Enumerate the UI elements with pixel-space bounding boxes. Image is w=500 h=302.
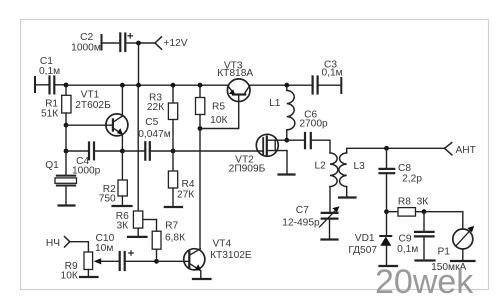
ground R6: [128, 236, 147, 238]
transistor VT1: [106, 114, 128, 136]
node R5 top junction: [198, 83, 203, 88]
svg-text:2Т602Б: 2Т602Б: [75, 100, 111, 111]
svg-text:L1: L1: [269, 98, 281, 109]
wire NCh to R9: [70, 242, 89, 252]
node C8 top junction: [384, 146, 389, 151]
node R3 top junction: [171, 83, 176, 88]
svg-text:1000p: 1000p: [72, 166, 101, 177]
resistor R5: [196, 85, 205, 128]
svg-text:L3: L3: [354, 161, 366, 172]
ground R2: [113, 205, 132, 207]
svg-text:C5: C5: [145, 117, 158, 128]
svg-text:VT4: VT4: [212, 239, 231, 250]
wire VT1 collector: [121, 85, 123, 116]
svg-text:АНТ: АНТ: [456, 145, 476, 156]
transistor VT2: [256, 134, 287, 156]
resistor R7: [152, 220, 161, 262]
svg-text:12-495p: 12-495p: [282, 218, 320, 229]
svg-text:ГД507: ГД507: [348, 245, 377, 256]
node L1 top junction: [284, 83, 289, 88]
inductor L1: [287, 85, 295, 140]
capacitor C2: [102, 34, 139, 52]
variable capacitor C7: [320, 206, 340, 239]
node R1 bottom / VT1 base junction: [64, 123, 69, 128]
ground VT2 source: [279, 173, 295, 175]
svg-text:R7: R7: [165, 220, 178, 231]
capacitor C3: [313, 77, 342, 94]
svg-text:VT1: VT1: [81, 89, 100, 100]
+12V terminal: [155, 37, 162, 49]
node +12V junction: [136, 41, 141, 46]
wire VT2 source to ground: [286, 151, 288, 175]
crystal Q1: [55, 151, 77, 206]
ground VT4: [193, 278, 211, 280]
wire L3 to antenna: [347, 147, 445, 149]
potentiometer R9: [84, 252, 120, 277]
node C1/R1 junction: [64, 83, 69, 88]
capacitor C8: [380, 148, 395, 211]
svg-text:0,047м: 0,047м: [138, 129, 171, 140]
svg-text:3К: 3К: [417, 196, 429, 207]
capacitor C6: [287, 133, 330, 153]
wire R5 node to VT3 base: [200, 95, 239, 129]
ground C9: [416, 259, 435, 261]
wire R5 node down to VT4 collector: [199, 129, 201, 250]
svg-text:2700p: 2700p: [299, 119, 328, 130]
svg-text:КТ3102Е: КТ3102Е: [210, 250, 252, 261]
capacitor C5: [122, 142, 173, 160]
ground C7: [322, 238, 338, 240]
node R5 bottom junction: [198, 126, 203, 131]
wire rail VT3 collector to C3: [250, 84, 313, 86]
svg-text:27К: 27К: [177, 190, 194, 201]
svg-text:10К: 10К: [61, 271, 78, 282]
resistor R3: [168, 85, 177, 151]
svg-text:КТ818А: КТ818А: [217, 68, 253, 79]
svg-text:22К: 22К: [147, 102, 164, 113]
node R3 bottom / R4 top junction: [171, 149, 176, 154]
svg-text:2,2p: 2,2p: [402, 173, 422, 184]
svg-text:3К: 3К: [116, 220, 128, 231]
svg-text:0,1м: 0,1м: [39, 66, 60, 77]
svg-text:VD1: VD1: [355, 233, 375, 244]
capacitor C4: [66, 143, 122, 160]
node R8 right / C9 junction: [422, 209, 427, 214]
wire C2 to +12V terminal: [139, 42, 156, 44]
node VT2 drain / L1 / C6 junction: [284, 138, 289, 143]
node C10 / R7 / VT4 base junction: [154, 259, 159, 264]
diode VD1: [380, 212, 391, 266]
terminal ANT: [445, 143, 452, 155]
node VT1 collector junction: [120, 83, 125, 88]
node C2 rail junction: [136, 83, 141, 88]
svg-text:НЧ: НЧ: [46, 238, 60, 249]
terminal NCh input: [65, 237, 70, 248]
inductor L2: [330, 153, 338, 213]
svg-text:51К: 51К: [41, 109, 58, 120]
node C4 / Q1 junction: [64, 149, 69, 154]
wire mid line to VT2 gate: [173, 150, 263, 152]
svg-text:750: 750: [99, 194, 116, 205]
capacitor C9: [415, 212, 434, 261]
svg-text:6,8К: 6,8К: [165, 232, 185, 243]
wire VT1 base: [66, 124, 113, 126]
wire R1 node down to C4 node: [65, 125, 67, 151]
svg-text:L2: L2: [315, 161, 327, 172]
svg-text:R4: R4: [181, 179, 194, 190]
transistor VT4: [184, 249, 205, 271]
ground Q1: [59, 204, 75, 206]
node R8 left / VD1 junction: [384, 209, 389, 214]
svg-text:0,1м: 0,1м: [397, 244, 418, 255]
resistor R1: [62, 85, 71, 125]
svg-text:2П909Б: 2П909Б: [229, 163, 266, 174]
svg-text:C9: C9: [398, 234, 411, 245]
wire VT1 emitter down: [121, 134, 123, 151]
capacitor C10: [120, 251, 157, 270]
wire +12V node down to supply rail: [138, 43, 140, 85]
ground VD1: [380, 265, 398, 267]
inductor L3: [339, 148, 347, 197]
ground L3: [339, 196, 356, 198]
ground P1: [451, 260, 475, 262]
svg-text:Q1: Q1: [45, 160, 59, 171]
ground R4: [165, 206, 182, 208]
svg-text:10м: 10м: [95, 243, 113, 254]
svg-text:+12V: +12V: [164, 38, 188, 49]
wire VT4 emitter to ground: [200, 271, 202, 279]
svg-text:20wek: 20wek: [375, 263, 474, 301]
svg-text:Р1: Р1: [437, 246, 450, 257]
svg-text:C7: C7: [296, 205, 309, 216]
resistor R2: [118, 151, 127, 206]
transistor VT3: [227, 79, 250, 102]
ground R9: [80, 276, 98, 278]
resistor R6: [133, 85, 142, 237]
svg-text:0,1м: 0,1м: [322, 68, 343, 79]
node VT1 emitter / R2 junction: [120, 149, 125, 154]
wire VT4 base: [157, 260, 190, 262]
resistor R8: [387, 208, 425, 217]
svg-text:R5: R5: [212, 102, 225, 113]
svg-text:10К: 10К: [210, 115, 227, 126]
capacitor C1: [35, 77, 66, 94]
resistor R4: [168, 151, 177, 207]
svg-text:1000м: 1000м: [71, 42, 101, 53]
wire +12V supply rail: [66, 84, 228, 86]
wire R7 top to R6 tap: [143, 219, 157, 221]
meter P1: [424, 212, 474, 261]
svg-text:R8: R8: [398, 196, 411, 207]
